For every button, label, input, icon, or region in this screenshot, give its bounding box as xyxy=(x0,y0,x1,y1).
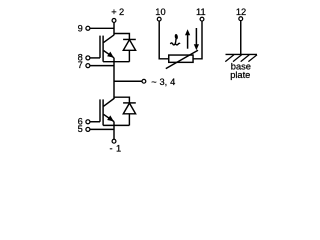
IGBT T1 emitter arrow xyxy=(107,52,114,58)
terminal 6 xyxy=(86,120,90,124)
wire terminal 9 to collector rail xyxy=(90,27,114,29)
svg-text:11: 11 xyxy=(196,7,206,17)
diode D2 triangle xyxy=(123,103,135,114)
wire emitter rail T2 xyxy=(103,124,129,126)
base plate chassis bar xyxy=(226,53,258,55)
diode D2 cathode bar xyxy=(123,102,136,104)
svg-text:-1: -1 xyxy=(110,143,122,153)
IGBT T1 gate bar xyxy=(99,36,101,58)
IGBT T2 body bar xyxy=(102,99,104,125)
IGBT T2 emitter lead xyxy=(104,114,115,121)
IGBT T1 collector lead xyxy=(104,35,115,43)
wire emitter to terminal 1 xyxy=(113,122,115,140)
diode D1 cathode bar xyxy=(123,38,136,40)
svg-text:plate: plate xyxy=(230,70,250,80)
terminal 1 xyxy=(112,139,116,143)
wire terminal 5 to emitter xyxy=(90,128,114,130)
wire terminal 10 to thermistor xyxy=(159,21,169,59)
chassis hatch line 3 xyxy=(241,55,250,62)
svg-text:12: 12 xyxy=(236,7,246,17)
terminal 3,4 xyxy=(142,79,146,83)
temperature symbol theta tail xyxy=(170,39,176,45)
thermistor R1 body xyxy=(169,55,193,62)
svg-text:+2: +2 xyxy=(111,7,124,17)
terminal 5 xyxy=(86,127,90,131)
wire terminal 11 to thermistor xyxy=(193,21,202,59)
IGBT T2 gate bar xyxy=(99,99,101,121)
wire DC+ rail xyxy=(113,22,115,35)
temperature symbol theta right hook xyxy=(175,43,180,45)
wire diode D1 branch xyxy=(114,34,129,40)
terminal 8 xyxy=(86,56,90,60)
chassis hatch line 2 xyxy=(233,55,242,62)
terminal 2 xyxy=(112,19,116,23)
svg-text:5: 5 xyxy=(78,124,83,134)
wire midpoint vertical xyxy=(113,58,115,99)
wire terminal 7 to emitter xyxy=(90,65,114,67)
IGBT T1 body bar xyxy=(102,36,104,62)
thermistor R1 slash xyxy=(166,50,198,68)
IGBT T2 emitter arrow xyxy=(107,115,114,121)
svg-text:10: 10 xyxy=(155,7,165,17)
IGBT T1 emitter lead xyxy=(104,51,115,58)
chassis hatch line 4 xyxy=(248,55,257,62)
terminal 11 xyxy=(200,17,204,21)
svg-text:7: 7 xyxy=(78,60,83,70)
diode D1 anode lead xyxy=(128,50,130,61)
chassis hatch line 1 xyxy=(225,55,234,62)
diode D1 triangle xyxy=(123,40,135,51)
diode D2 anode lead xyxy=(128,114,130,126)
terminal 10 xyxy=(157,17,161,21)
wire AC branch xyxy=(114,80,142,82)
wire terminal 8 to gate xyxy=(90,57,100,59)
terminal 7 xyxy=(86,64,90,68)
terminal 9 xyxy=(86,26,90,30)
arrow up (temperature rise) xyxy=(187,34,189,49)
wire diode D2 branch xyxy=(114,97,129,103)
wire terminal 6 to gate xyxy=(90,121,100,123)
wire emitter rail T1 xyxy=(103,61,129,63)
svg-text:~3,4: ~3,4 xyxy=(151,77,175,87)
svg-text:9: 9 xyxy=(78,24,83,34)
IGBT T2 collector lead xyxy=(104,99,115,107)
arrow down (resistance fall) xyxy=(195,28,197,45)
temperature symbol theta blob xyxy=(174,34,178,40)
wire terminal 12 to base plate xyxy=(240,21,242,55)
terminal 12 xyxy=(239,17,243,21)
